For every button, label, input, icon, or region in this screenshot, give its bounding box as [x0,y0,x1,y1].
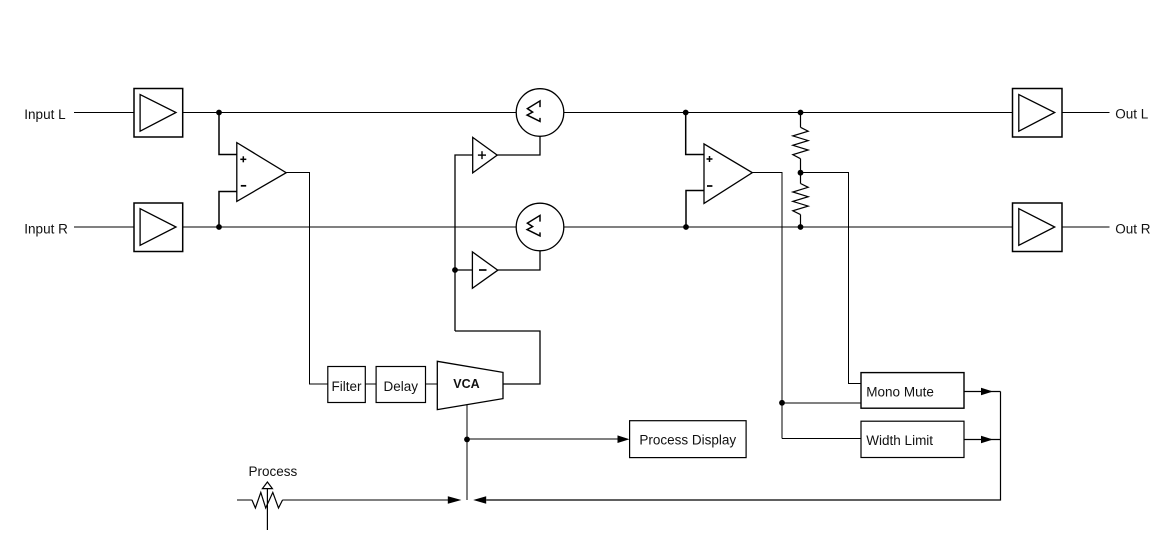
wire A4 input from bus [455,269,472,271]
sum junction S1 (L channel) [516,89,564,137]
amp A4 (width - amp) [472,252,497,288]
svg-text:Out R: Out R [1115,221,1151,236]
block Width Limit [861,421,964,457]
block Delay [376,367,425,403]
svg-text:Out L: Out L [1115,107,1149,122]
svg-text:Input R: Input R [24,221,68,236]
wire R dot to diff amp U1 minus input [219,192,237,228]
arrow control return (left-pointing) [473,496,486,503]
op-amp U2 (output difference amp) [704,144,752,204]
wire U2 output to control column [752,173,782,439]
block Mono Mute [861,373,964,409]
wire column to Width Limit input [782,438,861,440]
buffer amp A2 (Input R) [134,203,183,252]
buffer amp A6 (Out R) [1013,203,1063,252]
wire control to Process Display [467,438,618,440]
wire R dot to diff amp U2 minus input [686,191,704,228]
node junction dot R2 [683,224,689,230]
wire R line (buffer to Out R buffer, through sum circle) [183,226,1013,228]
node junction dot control column [779,400,785,406]
potentiometer P1 (Process) [252,482,283,530]
sum junction S2 (R channel) [516,203,564,251]
wire pot to VCA control [283,499,448,501]
wire Filter to Delay [365,383,376,385]
arrow Width Limit output [981,436,993,444]
node junction dot resistor top [798,110,804,116]
node junction dot L2 [683,110,689,116]
wire L dot to diff amp U1 plus input [219,113,237,155]
wire Mono Mute output [964,391,1001,393]
wire Input L stub [74,112,134,114]
resistor R1 (upper divider) [793,113,808,173]
node junction dot VCA control [464,437,470,443]
node junction dot resistor bottom [798,224,804,230]
wire A3 output up into S1 [497,136,540,155]
buffer amp A5 (Out L) [1013,89,1063,138]
wire resistor middle tap to Mono Mute input [801,173,862,384]
wire VCA bottom control drop [466,405,468,500]
amp A3 (width + amp) [473,137,498,173]
wire width bus corner to VCA output [455,331,540,384]
svg-text:Process: Process [249,464,298,479]
block VCA U3 [437,361,503,409]
svg-text:Delay: Delay [384,379,419,394]
arrow process into control node (right-pointing) [448,496,462,503]
wire Delay to VCA [426,383,438,385]
wire L dot to diff amp U2 plus input [686,113,704,155]
svg-text:Width Limit: Width Limit [866,433,933,448]
wire L line (buffer to Out L buffer, through sum circle) [183,112,1013,114]
wire Out L stub [1062,112,1109,114]
wire U1 output down to Filter [286,173,328,385]
wire Input R stub [74,226,134,228]
svg-text:VCA: VCA [453,377,479,391]
block Filter [328,367,366,403]
node junction dot resistor middle [798,170,804,176]
op-amp U1 (L-R difference amp) [237,143,286,202]
wire A4 output up into S2 [498,251,540,270]
arrow into Process Display [618,435,630,443]
wire Width Limit output [964,439,1001,441]
svg-text:Mono Mute: Mono Mute [866,384,934,399]
svg-text:Process Display: Process Display [639,432,736,447]
svg-text:Input L: Input L [24,107,66,122]
wire Out R stub [1062,226,1109,228]
arrow Mono Mute output [981,388,993,396]
wire A3 input from VCA bus [455,155,473,331]
wire dot to Mono Mute input [782,402,861,404]
resistor R2 (lower divider) [793,173,808,227]
wire process line left stub [237,499,252,501]
node junction dot R1 [216,224,222,230]
node junction dot L1 [216,110,222,116]
wire control return column [486,392,1000,501]
svg-text:Filter: Filter [332,379,363,394]
block Process Display [630,421,747,458]
buffer amp A1 (Input L) [134,89,183,138]
node junction dot on width bus at A4 input [452,267,458,273]
